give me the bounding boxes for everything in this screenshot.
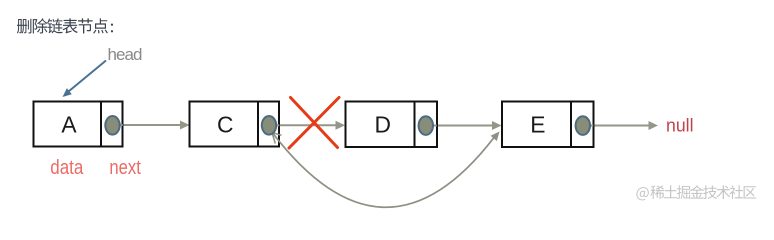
svg-text:null: null bbox=[666, 116, 694, 136]
svg-text:head: head bbox=[108, 45, 143, 64]
svg-text:E: E bbox=[530, 112, 545, 138]
svg-text:A: A bbox=[61, 112, 77, 138]
svg-text:D: D bbox=[374, 112, 390, 138]
svg-text:C: C bbox=[217, 112, 233, 138]
svg-text:data: data bbox=[50, 157, 84, 179]
svg-text:next: next bbox=[109, 157, 141, 179]
